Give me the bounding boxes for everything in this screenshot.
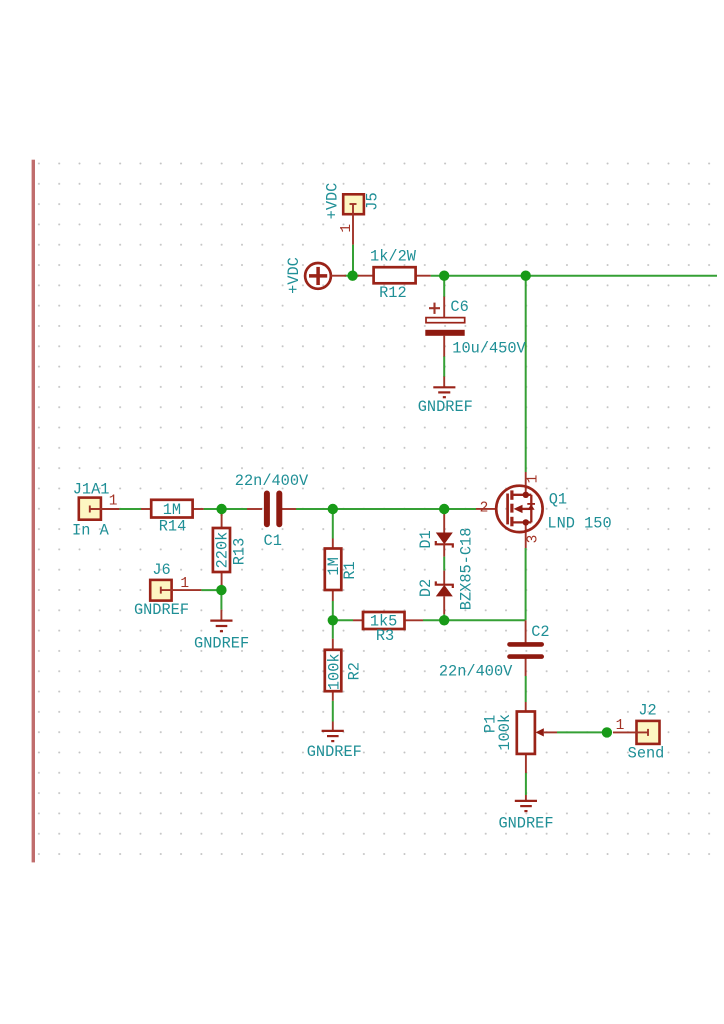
connector J6 — [150, 580, 201, 601]
svg-text:+VDC: +VDC — [285, 257, 303, 294]
wire R1 bottom — [332, 601, 334, 620]
svg-text:+VDC: +VDC — [324, 183, 342, 220]
resistor R3 — [353, 612, 423, 629]
resistor R1 — [325, 539, 342, 602]
svg-text:J2: J2 — [638, 702, 656, 720]
svg-text:R14: R14 — [159, 518, 187, 536]
wire R13 top — [221, 509, 223, 516]
svg-text:D2: D2 — [417, 579, 435, 597]
svg-text:100k: 100k — [326, 653, 344, 690]
wire D2 to node — [443, 614, 445, 620]
junction at Q1 drain tap — [521, 271, 531, 281]
ground GNDREF at R13/J6 node — [210, 610, 232, 632]
wire zener middle — [443, 557, 445, 571]
resistor R2 — [325, 639, 342, 701]
ground GNDREF under C6 — [433, 377, 455, 398]
wire R1 top — [332, 509, 334, 539]
wire top rail right — [431, 275, 717, 277]
resistor R12 — [357, 267, 431, 283]
svg-text:GNDREF: GNDREF — [307, 743, 362, 761]
zener diode D1 — [436, 513, 453, 557]
wire R2 to ground — [332, 701, 334, 722]
svg-text:1: 1 — [109, 494, 118, 510]
wire R13 bottom — [221, 584, 223, 590]
wire R14 to C1 — [204, 508, 247, 510]
capacitor C6 — [425, 297, 464, 357]
wire P1 bottom — [525, 773, 527, 795]
junction at R3/D2 node — [439, 615, 449, 625]
resistor R14 — [141, 500, 204, 518]
svg-text:10u/450V: 10u/450V — [452, 340, 526, 358]
wire J1A1 to R14 — [119, 508, 141, 510]
wire top rail left — [345, 275, 359, 277]
svg-text:J1A1: J1A1 — [73, 481, 110, 499]
wire C6 to ground — [443, 356, 445, 377]
svg-text:LND 150: LND 150 — [547, 515, 611, 533]
junction at R1/R3 node — [328, 615, 338, 625]
svg-text:GNDREF: GNDREF — [134, 601, 189, 619]
resistor R13 — [213, 514, 230, 585]
svg-text:1k/2W: 1k/2W — [370, 247, 417, 265]
connector J1A1 — [79, 498, 120, 520]
svg-text:R2: R2 — [346, 662, 364, 680]
capacitor C2 — [510, 620, 542, 676]
svg-text:GNDREF: GNDREF — [194, 634, 249, 652]
svg-text:J5: J5 — [364, 192, 382, 210]
wire C6 top — [443, 276, 445, 297]
svg-text:22n/400V: 22n/400V — [439, 663, 513, 681]
svg-text:In A: In A — [72, 522, 110, 540]
wire node to ground — [220, 590, 222, 610]
wire P1 wiper — [557, 731, 607, 733]
svg-text:Send: Send — [628, 744, 665, 762]
junction at P1 wiper/J2 — [602, 727, 612, 737]
ground GNDREF under P1 — [515, 795, 537, 811]
power symbol +VDC left — [305, 263, 346, 289]
svg-text:1: 1 — [339, 224, 355, 233]
wire C2 to P1 — [525, 676, 527, 702]
svg-text:GNDREF: GNDREF — [418, 398, 473, 416]
connector J2 — [613, 721, 660, 744]
svg-text:C6: C6 — [450, 298, 468, 316]
svg-text:C1: C1 — [264, 532, 282, 550]
capacitor C1 — [247, 494, 296, 525]
svg-text:1: 1 — [616, 718, 625, 734]
wire Q1 drain drop — [525, 276, 527, 472]
svg-text:R13: R13 — [230, 538, 248, 566]
wire J5 drop — [352, 245, 354, 276]
wire Q1 source drop — [525, 548, 527, 620]
connector J5 — [343, 194, 364, 244]
svg-text:D1: D1 — [417, 530, 435, 548]
svg-text:R12: R12 — [379, 284, 407, 302]
wire J6 to node — [201, 589, 221, 591]
svg-text:100k: 100k — [496, 714, 514, 751]
svg-text:J6: J6 — [152, 561, 170, 579]
svg-text:BZX85-C18: BZX85-C18 — [457, 528, 475, 611]
junction at D1 top — [439, 504, 449, 514]
zener diode D2 — [436, 571, 453, 615]
junction at J6 node — [216, 585, 226, 595]
junction at R14/R13 — [216, 504, 226, 514]
svg-text:Q1: Q1 — [549, 491, 567, 509]
svg-text:1: 1 — [180, 576, 189, 592]
sheet border line — [32, 160, 35, 863]
junction at R1 top — [328, 504, 338, 514]
svg-text:GNDREF: GNDREF — [498, 814, 553, 832]
wire R3 right to C2 corner — [423, 619, 526, 621]
svg-text:C2: C2 — [531, 623, 549, 641]
grid background — [37, 160, 724, 862]
svg-text:3: 3 — [526, 535, 542, 544]
junction at J5/+VDC — [347, 271, 357, 281]
junction at C6 tap — [439, 271, 449, 281]
wire gate net — [296, 508, 476, 510]
potentiometer P1 — [517, 702, 557, 773]
svg-text:1M: 1M — [163, 501, 181, 519]
svg-text:R3: R3 — [376, 627, 394, 645]
svg-text:2: 2 — [480, 501, 489, 517]
svg-text:220k: 220k — [214, 532, 232, 569]
svg-text:22n/400V: 22n/400V — [235, 472, 309, 490]
transistor Q1 — [476, 472, 543, 548]
wire R2 top — [332, 620, 334, 638]
svg-text:1: 1 — [525, 475, 541, 484]
wire R3 left — [333, 619, 353, 621]
svg-text:R1: R1 — [341, 561, 359, 579]
ground GNDREF under R2 — [322, 722, 344, 742]
